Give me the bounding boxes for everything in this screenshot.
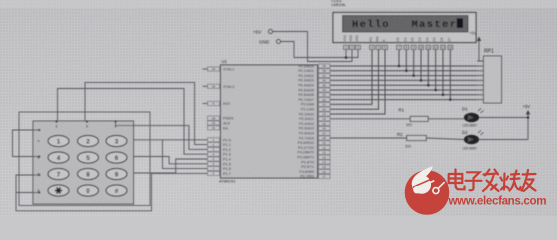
U1 pin 9 RST: [208, 101, 220, 105]
wire keypad col3 to U1 P1.2: [116, 121, 151, 126]
wire P0.0 row to RP1: [330, 65, 477, 67]
wire U1 P2.7 to R2: [330, 137, 407, 139]
wire LCD D4 vertical: [427, 50, 429, 85]
wire U1 P2.3 to R1: [330, 118, 410, 120]
wire LCD RW to U1 P2.1: [330, 50, 379, 109]
U1 pin 22 P2.1/A9: [319, 107, 331, 111]
wire LCD D0 vertical: [398, 50, 400, 66]
U1 pin 28 P2.7/A15: [319, 136, 331, 140]
svg-text:www.elecfans.com: www.elecfans.com: [448, 194, 547, 207]
RP1 pin stub 2: [477, 65, 484, 67]
wire GND to LCD VSS and VEE: [281, 42, 358, 58]
junction D1/+5V: [527, 116, 530, 119]
watermark text dian zi fa shao you: [449, 170, 536, 192]
watermark circuit rings: [414, 187, 420, 193]
wire keypad left bracket C stub: [16, 175, 39, 193]
wire LCD D3 vertical: [420, 50, 422, 81]
junction D6/P0.6: [442, 94, 445, 97]
junction D3/P0.3: [420, 79, 423, 82]
keypad pin nubs: [56, 121, 58, 123]
wire P0.3 row to RP1: [330, 79, 477, 81]
U1 pin 36 P0.3/AD3: [319, 78, 331, 82]
wire keypad col1 to U1 P1.3: [58, 89, 208, 155]
U1 pin 33 P0.6/AD6: [319, 93, 331, 97]
U1 pin 10 P3.0/RXD: [319, 141, 331, 145]
U1 pin 17 P3.7/RD: [319, 174, 331, 178]
U1 pin 5 P1.4: [208, 157, 220, 161]
U1 pin 4 P1.3: [208, 152, 220, 156]
U1 pin 21 P2.0/A8: [319, 102, 331, 106]
junction D4/P0.4: [427, 84, 430, 87]
wire R2 to D2: [426, 138, 464, 140]
RP1 pin stub 3: [477, 70, 484, 72]
U1 pin 8 P1.7: [208, 171, 220, 175]
junction D5/P0.5: [434, 89, 437, 92]
U1 pin 24 P2.3/A11: [319, 117, 331, 121]
wire P0.5 row to RP1: [330, 89, 477, 91]
wire D2 to +5V rail: [479, 139, 528, 141]
wire VSS down: [345, 50, 347, 58]
RP1 common pin stub: [477, 60, 484, 62]
led D1: [464, 113, 479, 122]
LCD cursor block: [457, 18, 463, 28]
junction D7/P0.7: [449, 98, 452, 101]
U1 pin 18 XTAL2: [208, 84, 220, 88]
wire keypad col2 to U1 P1.1: [85, 82, 208, 144]
U1 pin 29 PSEN: [208, 116, 220, 120]
led D2: [464, 135, 479, 144]
U1 pin 37 P0.2/AD2: [319, 74, 331, 78]
resistor R1 body: [410, 116, 428, 121]
keypad keys: [48, 135, 69, 146]
wire LCD RS to U1 P2.0: [330, 50, 372, 105]
U1 pin 12 P3.2/INT0: [319, 150, 331, 154]
U1 pin 27 P2.6/A14: [319, 131, 331, 135]
U1 pin 2 P1.1: [208, 143, 220, 147]
U1 pin 39 P0.0/AD0: [319, 64, 331, 68]
U1 pin 30 ALE: [208, 121, 220, 125]
U1 pin 3 P1.2: [208, 147, 220, 151]
U1 pin 14 P3.4/T0: [319, 160, 331, 164]
display LCD1 LM016L body: [333, 13, 476, 43]
RP1 pin stub 8: [477, 94, 484, 96]
junction D0/P0.0: [398, 65, 401, 68]
junction D1/P0.1: [405, 70, 408, 73]
wire P0.1 row to RP1: [330, 70, 477, 72]
wire keypad row A to U1 P1.0 and branch P1.6: [134, 139, 208, 141]
U1 pin 31 EA: [208, 126, 220, 130]
wire P0.2 row to RP1: [330, 75, 477, 77]
wire +5V to LCD VDD: [273, 32, 352, 62]
wire P0.6 row to RP1: [330, 94, 477, 96]
U1 pin 7 P1.6: [208, 167, 220, 171]
U1 pin 23 P2.2/A10: [319, 112, 331, 116]
op U1 AT89C51 microcontroller body: [221, 65, 318, 178]
LCD screen: [343, 16, 469, 33]
U1 pin 34 P0.5/AD5: [319, 88, 331, 92]
wire LCD E to U1 P2.2: [330, 50, 385, 114]
wire P0.4 row to RP1: [330, 84, 477, 86]
U1 pin 6 P1.5: [208, 162, 220, 166]
U1 pin 25 P2.4/A12: [319, 122, 331, 126]
RP1 pin stub 5: [477, 79, 484, 81]
watermark flame: [412, 166, 433, 194]
resistor R2 body: [407, 136, 427, 141]
U1 pin 26 P2.5/A13: [319, 126, 331, 130]
U1 pin 16 P3.6/WR: [319, 170, 331, 174]
wire keypad left bracket A-B: [13, 130, 40, 157]
RP1 pin stub 9: [477, 99, 484, 101]
U1 pin 15 P3.5/T1: [319, 165, 331, 169]
RP1 pin stub 7: [477, 89, 484, 91]
wire LCD D1 vertical: [405, 50, 407, 71]
wire LCD D6 vertical: [442, 50, 444, 95]
U1 pin 19 XTAL1: [208, 67, 220, 71]
wire keypad row C to U1 P1.4: [134, 159, 208, 173]
junction D2/P0.2: [412, 74, 415, 77]
RP1 pin stub 4: [477, 75, 484, 77]
RP1 pin stub 6: [477, 84, 484, 86]
wire LCD D2 vertical: [413, 50, 415, 76]
wire D1 to +5V rail: [479, 117, 528, 119]
resistor pack RP1 body: [484, 56, 502, 103]
junction VSS-GND: [345, 56, 348, 59]
keypad KP1 outer boundary: [19, 112, 150, 206]
U1 pin 1 P1.0: [208, 138, 220, 142]
wire P0.7 row to RP1: [330, 99, 477, 101]
wire LCD D5 vertical: [435, 50, 437, 90]
wire LCD D7 vertical: [449, 50, 451, 100]
watermark elecfans logo circle: [405, 166, 450, 215]
U1 pin 13 P3.3/INT1: [319, 155, 331, 159]
U1 pin 38 P0.1/AD1: [319, 69, 331, 73]
U1 pin 11 P3.1/TXD: [319, 146, 331, 150]
wire keypad row B to U1 P1.5: [134, 157, 208, 164]
U1 pin 35 P0.4/AD4: [319, 83, 331, 87]
watermark circuit cut: [413, 177, 437, 188]
wire R1 to D1: [428, 118, 464, 120]
wire keypad row D loop to U1 P1.7: [16, 173, 208, 210]
U1 pin 32 P0.7/AD7: [319, 98, 331, 102]
keypad body: [33, 121, 134, 204]
